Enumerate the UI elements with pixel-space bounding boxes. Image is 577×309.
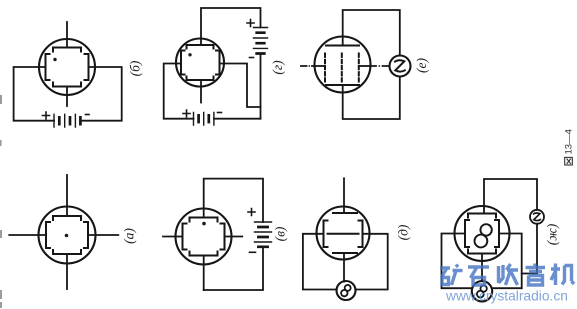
V4 top lead <box>66 175 68 216</box>
wire B4 bottom to cathode <box>204 247 263 290</box>
generator G1 symbol <box>395 60 405 71</box>
char 音 <box>526 264 546 286</box>
wire right loop to battery B1 <box>80 67 121 121</box>
V2 left deflection electrode <box>181 51 185 75</box>
V4 left lead <box>9 234 46 236</box>
battery B1 <box>54 114 75 127</box>
V1 left deflection electrode <box>46 54 50 80</box>
V3 right dash-dot lead <box>371 65 390 67</box>
plus sign B2 <box>247 20 254 27</box>
watermark 矿石收音机 (drawn strokes) <box>440 264 574 286</box>
V2 bottom electrode bar <box>187 77 214 81</box>
char 机 <box>551 264 574 286</box>
V3 inner connector right <box>359 65 371 67</box>
V7 right deflection electrode <box>495 220 499 247</box>
svg-text:(г): (г) <box>270 60 285 75</box>
V2 cathode dot <box>188 53 191 56</box>
V6 left deflection electrode <box>324 221 328 248</box>
svg-text:(ж): (ж) <box>545 223 560 245</box>
V3 grid 1 dashed <box>324 54 326 82</box>
wire battery B2 bottom down <box>260 54 262 119</box>
generator G2 circle <box>337 281 356 300</box>
generator G4 symbol <box>476 284 489 299</box>
battery B4 vertical <box>255 222 272 242</box>
V1 bottom lead <box>66 87 68 107</box>
generator G4 circle <box>472 281 492 301</box>
V4 right lead <box>88 234 118 236</box>
figure number 图13—4 vertical <box>564 129 575 165</box>
svg-text:(д): (д) <box>396 224 411 240</box>
V6 middle grid bar <box>328 233 359 235</box>
svg-text:(б): (б) <box>128 60 143 76</box>
V6 top lead <box>343 178 345 213</box>
svg-text:13—4: 13—4 <box>564 129 575 154</box>
generator G2 symbol <box>340 284 352 298</box>
tube V3 envelope <box>315 37 371 93</box>
svg-text:(в): (в) <box>273 226 288 241</box>
V1 right deflection electrode <box>85 54 89 80</box>
V7 bottom lead <box>481 254 483 282</box>
V4 cathode dot <box>65 234 69 238</box>
V6 bottom electrode bar <box>333 252 357 254</box>
battery B2 vertical <box>254 28 268 49</box>
V7 left deflection electrode <box>465 220 469 247</box>
tube V7 envelope <box>455 206 510 261</box>
minus sign B2 <box>250 57 254 59</box>
V6 bottom lead to generator G2 <box>343 253 345 282</box>
wire right electrode to B2 bottom <box>220 64 261 108</box>
svg-text:www.crystalradio.cn: www.crystalradio.cn <box>445 289 568 304</box>
wire G3 bottom to right electrode wire <box>522 224 537 274</box>
minus sign B1 <box>86 114 90 116</box>
wire left loop to battery B1 <box>14 67 54 121</box>
V5 right deflection electrode <box>221 224 225 250</box>
wire B3 right to B2 bottom <box>214 118 261 120</box>
V2 bottom lead <box>200 80 202 103</box>
V4 left deflection electrode <box>46 222 50 248</box>
plus sign B1 <box>43 112 50 119</box>
generator G3 circle <box>530 210 544 224</box>
V7 beam trace figure-eight <box>472 222 494 250</box>
wire plate to battery B2 top <box>201 8 261 45</box>
V1 bottom electrode bar <box>53 83 81 87</box>
wire right electrode down <box>499 234 522 289</box>
generator G3 symbol <box>534 213 541 220</box>
tube V1 envelope <box>39 39 95 95</box>
wire right electrode to G2 <box>355 234 387 290</box>
V2 anode top bar <box>187 45 214 49</box>
V6 anode top bar <box>333 212 357 214</box>
V4 anode top bar <box>53 216 81 220</box>
wire bottom to generator G1 <box>343 77 400 119</box>
V3 grid 2 dashed <box>341 54 343 82</box>
V3 inner connector left <box>315 65 325 67</box>
char 矿 <box>440 265 463 286</box>
V3 bottom electrode bar <box>326 84 359 86</box>
generator G1 circle <box>390 56 411 77</box>
char 收 <box>499 264 519 285</box>
V2 right deflection electrode <box>216 51 220 75</box>
wire left electrode to battery B3 <box>164 64 194 119</box>
V1 anode top bar <box>53 48 81 52</box>
V7 bottom electrode bar <box>468 250 496 254</box>
V4 right deflection electrode <box>84 222 88 248</box>
tube V5 envelope <box>176 209 232 265</box>
wire plate to battery B4 <box>204 179 263 222</box>
V1 top lead <box>66 22 68 48</box>
V7 anode top bar <box>468 214 496 218</box>
tube V4 envelope <box>39 207 96 264</box>
V5 cathode dot <box>202 222 206 226</box>
plus sign B4 <box>248 209 255 216</box>
battery B3 horizontal <box>194 112 214 125</box>
minus sign B4 <box>250 251 256 253</box>
tube V6 envelope <box>317 207 370 260</box>
V3 left dash-dot lead <box>301 65 315 67</box>
V4 bottom electrode bar <box>53 250 81 254</box>
V4 bottom lead <box>66 254 68 289</box>
scan edge artifacts <box>0 95 2 308</box>
wire left electrode to G2 <box>303 234 337 290</box>
wire left electrode to generator G4 <box>442 234 472 289</box>
V5 bottom electrode bar <box>190 252 218 256</box>
tube V2 envelope <box>176 39 224 87</box>
V3 grid 3 dashed <box>358 54 360 82</box>
svg-text:(е): (е) <box>414 58 429 73</box>
V1 cathode dot <box>53 58 56 61</box>
plus sign B3 <box>183 110 190 117</box>
wire right electrode wire to generator G4 <box>492 287 522 289</box>
V5 bottom lead <box>203 256 205 291</box>
wire plate to generator G3 <box>484 179 537 214</box>
V6 right deflection electrode <box>359 221 363 248</box>
char 石 <box>468 267 489 285</box>
svg-text:(а): (а) <box>122 228 137 244</box>
V5 anode top bar <box>190 218 218 222</box>
wire plate to generator G1 <box>343 10 400 55</box>
minus sign B3 <box>218 112 222 114</box>
V5 right lead <box>225 236 243 238</box>
V5 left lead <box>163 236 183 238</box>
V3 anode top bar <box>326 45 359 47</box>
V5 left deflection electrode <box>183 224 187 250</box>
